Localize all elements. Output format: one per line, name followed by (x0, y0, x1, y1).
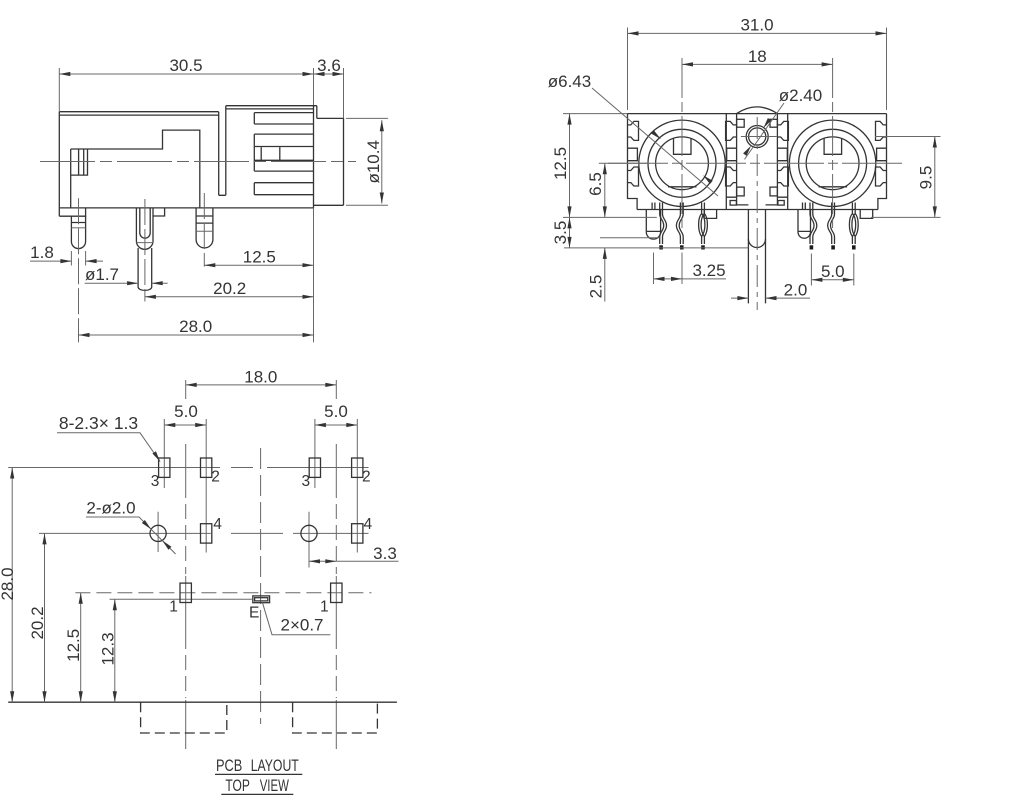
svg-text:4: 4 (213, 516, 222, 533)
pcb: dimension 12.5 (80, 593, 82, 702)
dimension 18 (682, 63, 833, 65)
front view: castellations left module left edge (628, 121, 639, 140)
svg-text:ø10.4: ø10.4 (364, 140, 383, 183)
svg-text:30.5: 30.5 (169, 56, 202, 75)
side view: cavity slot middle (254, 134, 313, 171)
front view: right jack contact chord (819, 186, 848, 188)
side view: centre pin (136, 208, 153, 249)
svg-text:2.0: 2.0 (784, 280, 808, 299)
front view: left jack contact chord (668, 186, 697, 188)
pcb: label 2x0.7 with leader (263, 603, 331, 635)
pcb: hole 2.0 right (301, 525, 317, 541)
svg-text:5.0: 5.0 (174, 402, 198, 421)
front view: tower centreline (756, 117, 758, 310)
front view: tower corner notches (737, 119, 745, 127)
front view: left jack circles (639, 120, 725, 206)
pcb: pad column lines (158, 419, 357, 568)
svg-text:8-2.3× 1.3: 8-2.3× 1.3 (59, 413, 138, 433)
front view: small circle dia 2.40 (746, 126, 768, 148)
side view: centre pin centreline (144, 199, 146, 302)
dimension 2.0 (731, 297, 748, 299)
front view: centre pin (748, 210, 765, 304)
dimension 2.5 (604, 248, 606, 302)
svg-text:2×0.7: 2×0.7 (280, 616, 323, 635)
pcb: vertical centreline middle (260, 448, 262, 724)
front view: castellations right module left edge (777, 121, 788, 140)
svg-text:3.25: 3.25 (692, 261, 725, 280)
svg-text:ø1.7: ø1.7 (85, 265, 119, 284)
front view: left jack wavy pin c (699, 210, 702, 245)
front view: left jack vertical centreline (681, 58, 683, 230)
svg-text:6.5: 6.5 (586, 172, 605, 196)
side view: interior step profile (71, 130, 200, 208)
pcb: dimension 3.3 (309, 560, 399, 562)
front view: right jack circles (789, 120, 875, 206)
pcb: dimension 12.3 (114, 599, 116, 702)
pcb: pad 4 left (201, 524, 212, 543)
svg-text:20.2: 20.2 (213, 279, 246, 298)
front view: right jack vertical centreline (832, 58, 834, 230)
front view: extension lines (563, 28, 941, 248)
svg-text:18: 18 (748, 47, 767, 66)
front view: right shield pin (798, 210, 811, 239)
svg-text:2.5: 2.5 (587, 275, 606, 299)
pcb: row line pins 2-3 (8, 467, 368, 469)
front view: left jack wavy pin a (660, 210, 664, 245)
side view: pin 1 centreline (78, 198, 80, 342)
front view: left jack key slot (674, 139, 692, 155)
svg-text:28.0: 28.0 (0, 567, 17, 600)
dimension 3.6 (314, 73, 344, 75)
svg-text:3.3: 3.3 (373, 544, 397, 563)
pcb: vertical centreline right (335, 380, 337, 749)
svg-text:TOP: TOP (225, 776, 250, 795)
svg-text:12.5: 12.5 (243, 247, 276, 266)
side view: pin 1 (left) (71, 216, 85, 248)
svg-text:LAYOUT: LAYOUT (251, 756, 299, 775)
svg-text:2: 2 (362, 469, 371, 486)
pcb: pad 3 left (159, 458, 170, 477)
side view: jack body outline (59, 112, 313, 217)
dimension 9.5 (934, 137, 936, 218)
front view: mounting feet (704, 210, 716, 219)
svg-text:5.0: 5.0 (324, 402, 348, 421)
svg-text:9.5: 9.5 (917, 166, 936, 190)
svg-text:5.0: 5.0 (821, 262, 845, 281)
dimension 12.5 side (204, 264, 313, 266)
dimension 1.8 (30, 260, 71, 262)
front view: module inner edges (726, 114, 787, 210)
svg-text:3: 3 (301, 473, 310, 490)
front view: castellations right module right edge (876, 121, 887, 140)
front view: small circle cross line (741, 136, 777, 138)
pcb: vertical centreline left (185, 380, 187, 749)
front view: right jack wavy pin b (828, 210, 832, 245)
pcb: dashed footprint notch right (293, 702, 378, 733)
pcb: pad 1 right (331, 583, 342, 602)
svg-text:E: E (249, 605, 259, 622)
pcb: pad 2 left (201, 458, 212, 477)
pcb: dimension 28.0 (11, 468, 13, 703)
dimension 30.5 (59, 73, 313, 75)
dimension 6.5 (604, 163, 606, 217)
front view: left jack wavy pin b (676, 210, 680, 245)
dimension dia 10.4 (381, 120, 383, 203)
front view: centre tower dome (737, 107, 778, 114)
svg-text:VIEW: VIEW (260, 776, 289, 795)
pcb: hole 2.0 left (150, 525, 166, 541)
dimension 31.0 (628, 32, 887, 34)
dimension 3.5 (569, 217, 571, 248)
pcb: dimension 5.0 right (315, 424, 357, 426)
pcb: row line pin 4 (39, 532, 369, 534)
svg-text:3.6: 3.6 (317, 56, 341, 75)
pcb: dashed footprint notch left (141, 702, 227, 733)
pcb: dimension 20.2 (44, 533, 46, 702)
svg-text:31.0: 31.0 (740, 16, 773, 35)
front view: tower base windows (730, 201, 736, 206)
front view: horizontal centreline (608, 162, 906, 164)
svg-text:PCB: PCB (216, 756, 242, 775)
side view: interior contact block (71, 149, 88, 175)
front view: left shield pin (646, 210, 660, 240)
front view: right jack wavy pin c (849, 210, 852, 245)
pcb: row line pad E (110, 598, 252, 600)
side view: pin 3 (right) (196, 208, 213, 248)
svg-text:1.8: 1.8 (30, 243, 54, 262)
svg-text:20.2: 20.2 (28, 606, 47, 639)
side view: vertical divider bar (219, 106, 226, 196)
front view: body outline (628, 114, 887, 210)
svg-text:12.5: 12.5 (64, 629, 83, 662)
side view: threaded barrel (314, 118, 344, 205)
svg-text:28.0: 28.0 (179, 317, 212, 336)
side view: top block (226, 106, 317, 119)
dimension 28.0 (79, 334, 314, 336)
pcb: dimension 5.0 left (164, 424, 206, 426)
side view: jack front face (313, 106, 315, 208)
front view: right jack key slot (824, 139, 842, 155)
svg-text:2: 2 (211, 469, 220, 486)
dimension 12.5 front (569, 114, 571, 218)
side view: pin 3 centreline (203, 193, 205, 267)
svg-text:18.0: 18.0 (244, 367, 277, 386)
pcb: row line pin 1 (75, 592, 371, 594)
side view: step right of centre pin (153, 208, 165, 216)
front view: pin stubs under jacks (652, 203, 655, 210)
pcb: dimension 18.0 (186, 384, 337, 386)
pcb: pad 1 left (180, 583, 191, 602)
pcb: pad 4 right (352, 524, 363, 543)
dimension 3.25 (654, 253, 683, 285)
dimension 20.2 (145, 296, 314, 298)
pcb: pad E (253, 596, 270, 603)
side view: cavity slot lower (254, 183, 313, 195)
svg-text:12.3: 12.3 (99, 632, 118, 665)
svg-text:ø2.40: ø2.40 (779, 86, 822, 105)
front view: centre tower sides (737, 114, 778, 205)
side view: horizontal centreline (40, 161, 356, 163)
svg-text:ø6.43: ø6.43 (548, 72, 591, 91)
dimension 5.0 (811, 254, 853, 286)
svg-text:3.5: 3.5 (551, 221, 570, 245)
svg-text:3: 3 (151, 473, 160, 490)
side view: left mounting flange (59, 208, 85, 216)
svg-text:12.5: 12.5 (551, 147, 570, 180)
front view: castellations left module right edge (726, 121, 737, 140)
side view: cavity slot upper (254, 113, 313, 124)
dimension dia 1.7 (85, 282, 138, 284)
svg-text:4: 4 (363, 516, 372, 533)
front view: right jack wavy pin a (810, 210, 814, 245)
svg-text:1: 1 (320, 599, 329, 616)
pcb: pcb edge line (8, 701, 397, 703)
pcb: pad 3 right (309, 458, 320, 477)
svg-text:2-ø2.0: 2-ø2.0 (86, 499, 135, 518)
pcb: pad 2 right (352, 458, 363, 477)
svg-text:1: 1 (169, 599, 178, 616)
side view: extension lines (59, 68, 388, 342)
